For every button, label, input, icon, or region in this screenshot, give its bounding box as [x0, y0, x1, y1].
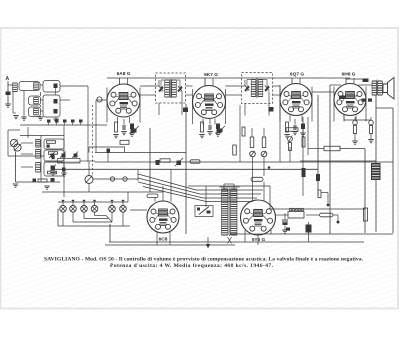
svg-text:5Y3 G: 5Y3 G	[252, 237, 266, 243]
svg-text:SAVIGLIANO - Mod. OS 50 -: SAVIGLIANO - Mod. OS 50 - Il controllo d…	[44, 256, 364, 262]
svg-text:6K7 G: 6K7 G	[204, 72, 218, 78]
svg-text:6H6 G: 6H6 G	[342, 72, 356, 78]
svg-text:6A8 G: 6A8 G	[117, 71, 131, 77]
svg-text:A: A	[6, 76, 10, 82]
svg-text:Potenza d'uscita: 4 W. Media f: Potenza d'uscita: 4 W. Media frequenza: …	[110, 263, 274, 269]
svg-text:6C8: 6C8	[159, 237, 168, 243]
svg-text:6Q7 G: 6Q7 G	[290, 72, 304, 78]
